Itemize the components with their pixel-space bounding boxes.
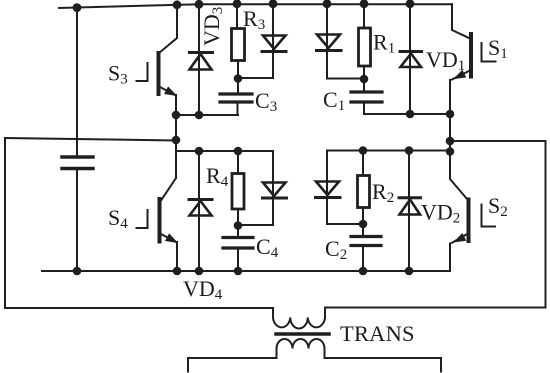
wire S3 emitter snubber rail <box>176 114 238 116</box>
resistor R2 body <box>358 176 370 208</box>
diode VD1 wire <box>409 4 411 114</box>
diode D-snubber upper-left wire <box>272 4 274 79</box>
svg-text:VD1: VD1 <box>426 47 465 74</box>
wire S3/S4 midpoint vertical <box>175 115 177 178</box>
diode VD4 triangle <box>190 201 212 216</box>
resistor R1 bottom lead <box>363 66 365 79</box>
transistor S1 body bar <box>469 34 473 77</box>
transistor S1 gate lead <box>482 43 496 62</box>
capacitor C1 plates <box>351 92 382 102</box>
transistor S4 emitter arrow <box>166 234 177 242</box>
node bottom bus at DC cap <box>73 267 82 276</box>
wire primary left horizontal <box>5 307 273 309</box>
transistor S3 emitter lead <box>159 87 176 116</box>
resistor R2 bottom lead <box>362 208 364 225</box>
diode VD4 wire <box>198 151 200 271</box>
resistor R4 bottom lead <box>237 209 239 226</box>
diode D-snubber lower-right wire <box>326 151 328 225</box>
diode VD1 triangle <box>401 54 422 68</box>
svg-text:VD4: VD4 <box>183 276 223 303</box>
svg-text:VD3: VD3 <box>199 7 226 46</box>
diode D-snubber lower-left cathode bar <box>263 197 287 200</box>
wire lower-left snubber top rail <box>176 150 273 152</box>
diode D-snubber upper-right triangle <box>317 35 340 49</box>
node left bridge midpoint <box>172 136 181 145</box>
transistor S4 collector lead <box>160 178 176 202</box>
node bottom bus at VD4 <box>195 267 204 276</box>
capacitor C3 top lead <box>237 79 239 94</box>
capacitor C1 top lead <box>363 79 365 92</box>
transistor S4 body bar <box>158 199 162 242</box>
node S3 emitter rail at VD3 <box>195 111 204 120</box>
svg-text:S2: S2 <box>488 193 508 220</box>
wire diode to junction R1C1 <box>327 78 364 80</box>
resistor R3 bottom lead <box>237 61 239 79</box>
capacitor C4 bottom lead <box>237 249 239 272</box>
diode D-snubber upper-left triangle <box>263 36 286 50</box>
svg-text:TRANS: TRANS <box>340 321 415 346</box>
diode VD3 triangle <box>190 54 212 70</box>
wire left outer vertical to transformer <box>4 138 6 308</box>
node right bridge midpoint <box>446 137 455 146</box>
node top rail at R3 <box>233 0 242 8</box>
resistor R4 body <box>232 174 244 210</box>
svg-text:C1: C1 <box>323 87 345 114</box>
wire secondary right lead <box>325 358 442 372</box>
node bottom bus at VD2 <box>405 267 414 276</box>
svg-text:VD2: VD2 <box>421 200 460 227</box>
wire top DC bus rail <box>59 4 452 8</box>
resistor R1 body <box>359 28 371 66</box>
transistor S3 body bar <box>157 53 161 94</box>
svg-text:S1: S1 <box>488 35 508 62</box>
svg-text:R1: R1 <box>373 30 395 57</box>
transistor S4 emitter lead <box>160 234 177 272</box>
transistor S1 collector lead <box>452 4 470 38</box>
node top rail at VD1 <box>406 0 415 8</box>
capacitor C2 plates <box>351 237 381 246</box>
node LL rail at R4 <box>234 147 243 156</box>
capacitor C2 bottom lead <box>362 246 364 271</box>
diode D-snubber upper-right wire <box>326 4 328 78</box>
node LR rail at R2 <box>359 146 368 155</box>
node top rail at R1 <box>360 0 369 8</box>
transistor S4 gate lead <box>137 210 148 228</box>
node junction R1 C1 <box>360 75 369 84</box>
svg-text:C3: C3 <box>255 88 277 115</box>
svg-text:C2: C2 <box>325 236 347 263</box>
transistor S2 collector lead <box>450 152 468 200</box>
resistor R2 top lead <box>362 151 364 176</box>
svg-text:R2: R2 <box>372 179 394 206</box>
diode VD2 cathode bar <box>399 196 421 199</box>
transformer secondary winding <box>277 339 325 358</box>
wire lower-right snubber top rail <box>327 150 450 152</box>
diode D-snubber upper-right cathode bar <box>317 49 342 52</box>
resistor R3 body <box>232 29 245 61</box>
capacitor C3 bottom lead <box>237 103 239 115</box>
node junction R4 C4 <box>234 221 243 230</box>
transistor S2 emitter lead <box>450 234 468 272</box>
node top rail at VD3 <box>195 0 204 9</box>
wire junction R4C4 to diode <box>238 224 273 226</box>
diode VD2 triangle <box>400 200 421 215</box>
svg-text:R4: R4 <box>206 163 229 190</box>
node top rail at DC cap <box>73 3 82 12</box>
transistor S1 emitter lead <box>450 71 470 153</box>
transistor S1 emitter arrow <box>455 71 466 79</box>
resistor R3 top lead <box>236 4 238 29</box>
wire bottom DC bus rail <box>42 270 450 272</box>
svg-text:S4: S4 <box>108 205 128 232</box>
diode D-snubber lower-left wire <box>272 151 274 225</box>
node junction R2 C2 <box>359 220 368 229</box>
transistor S2 emitter arrow <box>455 234 466 242</box>
capacitor DC-link: top lead <box>76 8 78 157</box>
node bottom bus at C2 <box>359 267 368 276</box>
svg-text:C4: C4 <box>256 234 279 261</box>
node top rail at S3 <box>173 0 182 9</box>
wire junction R3C3 to diode <box>238 77 273 79</box>
diode D-snubber lower-left triangle <box>263 183 286 197</box>
node LR rail at VD2 <box>405 146 414 155</box>
node bottom bus at S4 <box>173 267 182 276</box>
transistor S3 collector lead <box>159 5 177 53</box>
transistor S3 gate lead <box>137 63 148 81</box>
node bottom bus at C4 <box>234 267 243 276</box>
diode D-snubber lower-right triangle <box>316 182 339 196</box>
node LL rail at VD4 <box>195 147 204 156</box>
wire right bridge midpoint horizontal <box>450 140 546 142</box>
capacitor C4 plates <box>223 238 253 249</box>
node C1 rail at S1 emitter <box>446 110 455 119</box>
svg-text:S3: S3 <box>108 61 128 88</box>
capacitor C1 bottom lead <box>363 103 365 114</box>
wire left bridge midpoint horizontal <box>5 138 176 141</box>
diode D-snubber upper-left cathode bar <box>262 50 286 53</box>
node junction R3 C3 <box>234 74 243 83</box>
capacitor C4 top lead <box>237 226 239 238</box>
node C1 rail at VD1 <box>406 110 415 119</box>
diode D-snubber lower-right cathode bar <box>316 196 341 199</box>
diode VD2 wire <box>408 151 410 272</box>
wire primary right horizontal <box>325 307 546 309</box>
diode VD3 wire <box>198 4 200 115</box>
node top rail at UR snubber diode <box>323 0 332 8</box>
transistor S2 gate lead <box>482 205 496 227</box>
capacitor C2 top lead <box>362 224 364 236</box>
diode VD3 cathode bar <box>190 51 213 54</box>
capacitor DC-link plates <box>62 157 93 169</box>
node S2 collector tap <box>446 147 455 156</box>
diode VD1 cathode bar <box>400 50 422 53</box>
wire C1 bottom rail to S1 emitter <box>364 113 450 115</box>
transformer primary winding <box>273 308 325 329</box>
resistor R4 top lead <box>237 151 239 174</box>
capacitor C3 plates <box>220 94 252 102</box>
wire diode to junction R2C2 <box>327 223 363 225</box>
node top rail at UL snubber diode <box>269 0 278 8</box>
wire right outer vertical to transformer <box>545 141 547 308</box>
svg-text:R3: R3 <box>243 6 265 33</box>
diode VD4 cathode bar <box>189 198 212 201</box>
node S3 emitter rail left <box>172 111 181 120</box>
transformer core bar <box>276 332 329 336</box>
transistor S3 emitter arrow <box>165 87 176 95</box>
capacitor DC-link: bottom lead <box>76 170 78 271</box>
wire secondary left lead <box>188 358 277 372</box>
resistor R1 top lead <box>363 4 365 28</box>
transistor S2 body bar <box>467 200 471 242</box>
